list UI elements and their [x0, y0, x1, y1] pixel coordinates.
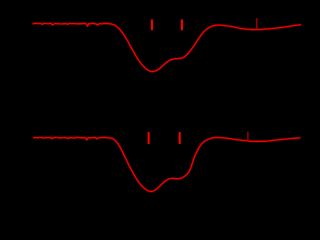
top spectrum curve (panel 1)	[33, 23, 302, 72]
tick mark T1 top panel	[151, 19, 153, 30]
tick mark T2 bottom panel	[179, 132, 181, 144]
bottom spectrum curve (panel 2) glow	[33, 137, 301, 191]
bottom spectrum curve (panel 2)	[33, 137, 301, 191]
top spectrum curve (panel 1) glow	[33, 23, 302, 72]
tick mark T2 top panel	[181, 19, 183, 30]
dim tick mark T3 top panel	[256, 18, 258, 29]
tick mark T1 bottom panel	[148, 132, 150, 144]
dim tick mark T3 bottom panel	[247, 132, 249, 142]
